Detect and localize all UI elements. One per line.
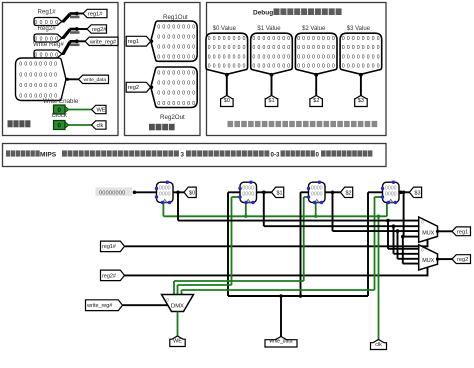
- tunnel reg1: [126, 36, 150, 46]
- junction clk-R2: [314, 215, 317, 218]
- wire pin to splitter: [62, 21, 64, 23]
- svg-text:reg1: reg1: [457, 229, 468, 235]
- register R2 ($2): [309, 182, 326, 202]
- svg-text:Reg1Out: Reg1Out: [163, 14, 188, 21]
- tunnel $0: [184, 187, 196, 197]
- svg-text:0 0 0 0 0 0 0 0: 0 0 0 0 0 0 0 0: [157, 91, 195, 97]
- svg-text:0 0 0 0 0 0 0 0: 0 0 0 0 0 0 0 0: [157, 24, 195, 30]
- wire pin to tunnel $1: [271, 74, 273, 96]
- output pin Reg1Out (32-bit): [151, 21, 197, 61]
- svg-text:$2 Value: $2 Value: [302, 26, 326, 32]
- panel: debug pins: [207, 3, 387, 136]
- wire R0 Q to tunnel $0: [173, 191, 184, 193]
- svg-text:DMX: DMX: [171, 304, 184, 310]
- mux MUX1: [419, 217, 438, 242]
- tunnel $3: [409, 187, 421, 197]
- svg-text:0000: 0000: [385, 191, 397, 197]
- svg-text:$3: $3: [358, 98, 364, 104]
- svg-text:Debug: Debug: [253, 9, 273, 16]
- svg-text:reg2#: reg2#: [92, 27, 107, 33]
- svg-text:0000: 0000: [242, 191, 254, 197]
- junction write_data stem: [279, 294, 283, 298]
- svg-text:$0 Value: $0 Value: [213, 26, 237, 32]
- svg-text:WE: WE: [173, 339, 182, 345]
- svg-text:reg2#: reg2#: [102, 273, 116, 279]
- wire splitter to tunnel reg1#: [78, 13, 84, 15]
- panel: input pins: [3, 3, 119, 136]
- svg-text:0 0 0 0 0 0 0 0: 0 0 0 0 0 0 0 0: [253, 63, 291, 69]
- wire pin to tunnel $2: [315, 74, 317, 96]
- svg-text:reg1: reg1: [128, 39, 139, 45]
- wire write_data bus: [228, 295, 368, 297]
- wire reg1# to MUX1 select: [125, 245, 428, 247]
- register R1 ($1): [240, 182, 257, 202]
- svg-text:0 0 0 0 0 0 0 0: 0 0 0 0 0 0 0 0: [297, 45, 335, 51]
- mux MUX2: [419, 245, 438, 270]
- wire reg2 tunnel to pin: [149, 86, 153, 88]
- tunnel $1: [272, 187, 284, 197]
- output pin $1 Value (32-bit): [251, 33, 293, 74]
- splitter for reg1#: [63, 14, 70, 22]
- svg-text:clk: clk: [97, 123, 104, 129]
- input pin Write Reg# (5-bit): [34, 50, 62, 58]
- svg-text:reg1#: reg1#: [88, 12, 103, 18]
- svg-text:0 0 0 0 0 0 0 0: 0 0 0 0 0 0 0 0: [342, 45, 380, 51]
- svg-text:$0: $0: [224, 98, 230, 104]
- tunnel WE (bottom): [170, 336, 185, 347]
- tunnel reg2#: [87, 25, 107, 33]
- tunnel write_data: [79, 75, 109, 83]
- svg-text:0: 0: [57, 122, 61, 129]
- input pin WE (1-bit, value 0): [54, 105, 66, 114]
- wire write_data stem from tunnel: [280, 296, 282, 338]
- svg-text:Write Reg#: Write Reg#: [33, 41, 64, 48]
- svg-text:0 0 0 0 0 0 0 0: 0 0 0 0 0 0 0 0: [297, 63, 335, 69]
- output pin $3 Value (32-bit): [340, 33, 382, 74]
- wire WE pin to tunnel: [69, 109, 92, 111]
- label (CJK) input pins: [8, 120, 13, 127]
- wire DMX out to R2 enable: [173, 281, 175, 295]
- register R1 selection handles: [238, 187, 241, 190]
- svg-text:0000: 0000: [311, 191, 323, 197]
- svg-text:0 0 0 0 0 0 0 0: 0 0 0 0 0 0 0 0: [297, 54, 335, 60]
- wire reg2# to MUX2 select: [125, 274, 428, 276]
- svg-text:reg2: reg2: [457, 257, 468, 263]
- wire DMX out to R1 enable: [177, 285, 179, 295]
- wire write_data riser to R1 D: [227, 192, 229, 296]
- wire write_data pin to tunnel: [65, 78, 79, 80]
- tunnel reg2 (bottom): [452, 255, 471, 264]
- svg-text:Write Enable: Write Enable: [43, 98, 79, 105]
- svg-text:$2: $2: [313, 98, 319, 104]
- wire clk stub to R1: [245, 202, 247, 216]
- svg-text:0 0 0 0 0 0 0 0: 0 0 0 0 0 0 0 0: [157, 35, 195, 41]
- wire write_data riser to R3 D: [367, 192, 369, 296]
- output pin $2 Value (32-bit): [295, 33, 337, 74]
- input pin Reg2# (5-bit): [34, 34, 62, 42]
- wire $1 feed to MUX2 input: [393, 226, 395, 254]
- junction $3 second dot: [399, 191, 403, 195]
- input pin Reg1# (5-bit): [34, 18, 62, 26]
- tunnel write_reg#: [85, 37, 118, 45]
- svg-text:$1: $1: [277, 190, 283, 196]
- tunnel WE: [92, 105, 107, 113]
- svg-text:0 0 0 0 0 0 0 0: 0 0 0 0 0 0 0 0: [19, 72, 57, 78]
- svg-text:0-3: 0-3: [271, 151, 281, 158]
- svg-text:reg2: reg2: [128, 85, 139, 91]
- svg-text:0 0 0 0 0 0 0 0: 0 0 0 0 0 0 0 0: [208, 54, 246, 60]
- junction $2 MUX2 feed: [396, 229, 400, 233]
- wire R3 Q to tunnel $3: [399, 191, 409, 193]
- svg-text:0 0 0 0 0 0 0 0: 0 0 0 0 0 0 0 0: [157, 45, 195, 51]
- wire $2 drop to MUX1 input: [332, 192, 334, 231]
- svg-text:write_reg#: write_reg#: [86, 303, 112, 309]
- wire splitter to tunnel write_reg#: [78, 40, 86, 42]
- svg-text:$3: $3: [414, 190, 420, 196]
- svg-text:clk: clk: [375, 342, 382, 348]
- output pin Reg2Out (32-bit): [151, 67, 197, 108]
- wire write_data riser to R2 D: [300, 192, 302, 296]
- junction $1 MUX2 feed: [392, 224, 396, 228]
- svg-text:write_reg#: write_reg#: [89, 39, 117, 45]
- tunnel $1: [265, 96, 278, 107]
- wire write_reg# to DMX select: [123, 304, 168, 306]
- svg-text:Reg2#: Reg2#: [38, 25, 57, 32]
- junction $3 MUX2 feed: [401, 235, 405, 239]
- input pin clk (1-bit, value 0): [54, 121, 66, 130]
- tunnel $3: [355, 96, 368, 107]
- wire reg1 tunnel to pin: [149, 40, 153, 42]
- svg-text:0: 0: [316, 151, 320, 158]
- svg-text:0 0 0 0 0 0 0 0: 0 0 0 0 0 0 0 0: [19, 83, 57, 89]
- register R3 ($3): [383, 182, 400, 202]
- wire splitter to tunnel reg2#: [78, 28, 88, 30]
- svg-text:0 0 0 0 0 0 0 0: 0 0 0 0 0 0 0 0: [157, 55, 195, 61]
- svg-text:$3 Value: $3 Value: [347, 26, 371, 32]
- wire R2 Q to tunnel $2: [325, 191, 341, 193]
- wire constant to R0 D: [135, 191, 157, 193]
- svg-text:write_data: write_data: [269, 339, 292, 345]
- svg-text:0 0 0 0 0 0 0 0: 0 0 0 0 0 0 0 0: [297, 36, 335, 42]
- wire pin to splitter: [62, 37, 64, 39]
- svg-text:0 0 0 0 0 0 0 0: 0 0 0 0 0 0 0 0: [253, 36, 291, 42]
- wire pin to tunnel $3: [360, 74, 362, 96]
- tunnel reg1#: [101, 241, 125, 252]
- wire $0 drop to MUX1 input: [177, 192, 179, 220]
- input pin write_data (32-bit): [16, 58, 67, 101]
- register R2 selection handles: [307, 187, 310, 190]
- wire $0 feed to MUX2 input: [387, 221, 389, 249]
- svg-text:0 0 0 0 0 0 0 0: 0 0 0 0 0 0 0 0: [157, 71, 195, 77]
- svg-text:Reg1#: Reg1#: [38, 9, 57, 16]
- output pin $0 Value (32-bit): [206, 33, 248, 74]
- tunnel reg2: [126, 82, 150, 92]
- junction clk riser: [377, 215, 381, 219]
- wire $3 feed to MUX2 input: [402, 237, 404, 264]
- junction write_data-R2: [299, 294, 303, 298]
- wire $3 drop to MUX1 input: [403, 192, 405, 236]
- wire clk stub to R3: [386, 202, 388, 216]
- description: circuit function (CJK + MIPS): [6, 150, 10, 156]
- svg-text:0 0 0 0 0 0 0 0: 0 0 0 0 0 0 0 0: [208, 36, 246, 42]
- svg-text:0 0 0 0 0 0 0 0: 0 0 0 0 0 0 0 0: [253, 54, 291, 60]
- wire clk bus: [163, 215, 387, 217]
- svg-text:MUX: MUX: [422, 258, 434, 264]
- junction $0 MUX2 feed: [386, 219, 390, 223]
- tunnel write_reg# (bottom): [86, 300, 123, 311]
- svg-text:$1 Value: $1 Value: [257, 26, 281, 32]
- tunnel $2: [310, 96, 323, 107]
- register R3 selection handles: [381, 187, 384, 190]
- note text (CJK) do not modify pins: [228, 121, 234, 127]
- panel: output pins: [125, 3, 201, 136]
- svg-text:3: 3: [181, 151, 185, 158]
- tunnel write_data (bottom): [265, 337, 297, 348]
- svg-text:0 0 0 0 0 0 0 0: 0 0 0 0 0 0 0 0: [208, 45, 246, 51]
- svg-text:Reg2Out: Reg2Out: [160, 114, 185, 121]
- tunnel clk (bottom): [371, 340, 387, 350]
- junction R0 output: [176, 191, 180, 195]
- junction R1 output: [262, 191, 266, 195]
- demux DMX: [162, 295, 194, 312]
- splitter for reg2#: [63, 30, 70, 39]
- svg-text:0 0 0 0 0 0 0 0: 0 0 0 0 0 0 0 0: [253, 45, 291, 51]
- svg-text:write_data: write_data: [84, 77, 107, 83]
- constant 00000000: [96, 188, 133, 197]
- label (CJK) output pins: [149, 124, 155, 131]
- svg-text:Clock: Clock: [52, 112, 68, 119]
- tunnel $2: [341, 187, 353, 197]
- svg-text:0000: 0000: [159, 191, 171, 197]
- tunnel clk: [92, 121, 107, 129]
- svg-text:0 0 0 0 0 0 0 0: 0 0 0 0 0 0 0 0: [19, 62, 57, 68]
- wire WE to DMX input: [177, 312, 179, 337]
- node constant output: [133, 191, 137, 195]
- svg-text:$1: $1: [268, 98, 274, 104]
- wire clk pin to tunnel: [69, 124, 92, 126]
- wire $1 drop to MUX1 input: [263, 192, 265, 226]
- wire MUX2 out to reg2 tunnel: [436, 258, 439, 261]
- wire pin to tunnel $0: [226, 74, 228, 96]
- tunnel reg1#: [83, 9, 107, 17]
- wire pin to splitter: [62, 53, 64, 55]
- svg-text:reg1#: reg1#: [102, 244, 116, 250]
- svg-text:WE: WE: [97, 108, 106, 114]
- junction R3 output: [402, 191, 406, 195]
- svg-text:$2: $2: [346, 190, 352, 196]
- wire R1 Q to tunnel $1: [257, 191, 272, 193]
- wire $2 feed to MUX2 input: [397, 231, 399, 259]
- wire clk stub to R2: [315, 202, 317, 216]
- panel: description text row: [3, 144, 387, 167]
- svg-text:0 0 0 0 0 0 0 0: 0 0 0 0 0 0 0 0: [342, 63, 380, 69]
- register R0 ($0): [157, 182, 174, 202]
- svg-text:0 0 0 0 0 0 0 0: 0 0 0 0 0 0 0 0: [342, 54, 380, 60]
- svg-text:00000000: 00000000: [99, 191, 126, 197]
- svg-text:0 0 0 0 0 0 0 0: 0 0 0 0 0 0 0 0: [157, 101, 195, 107]
- splitter for write_reg#: [63, 42, 70, 55]
- tunnel reg1 (bottom): [452, 227, 471, 236]
- junction R2 output: [331, 191, 335, 195]
- wire clk riser from tunnel: [378, 216, 380, 340]
- svg-text:MUX: MUX: [422, 230, 434, 236]
- wire MUX1 out to reg1 tunnel: [436, 230, 439, 233]
- tunnel reg2#: [101, 270, 125, 281]
- svg-text:$0: $0: [189, 190, 195, 196]
- svg-text:0 0 0 0 0 0 0 0: 0 0 0 0 0 0 0 0: [208, 63, 246, 69]
- register R0 selection handles: [155, 187, 158, 190]
- svg-text:0 0 0 0 0 0 0 0: 0 0 0 0 0 0 0 0: [342, 36, 380, 42]
- svg-text:0 0 0 0 0 0 0 0: 0 0 0 0 0 0 0 0: [157, 81, 195, 87]
- svg-text:MIPS: MIPS: [40, 151, 57, 158]
- wire clk stub to R0: [162, 202, 164, 216]
- junction clk-R1: [244, 215, 247, 218]
- tunnel $0: [221, 96, 234, 107]
- wire DMX out to R3 enable: [181, 290, 183, 295]
